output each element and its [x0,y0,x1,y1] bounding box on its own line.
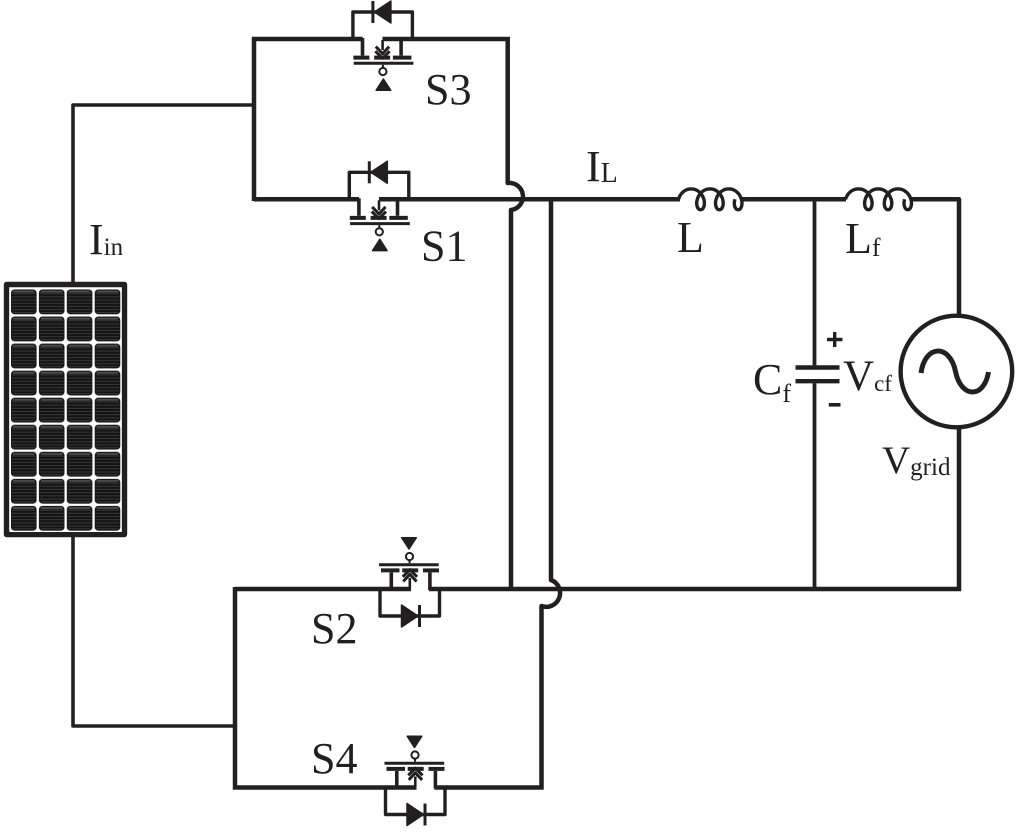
wire S2 rail right to bottom-right corner [429,587,961,592]
wire S1 rail left [254,197,359,202]
sine wave [921,351,989,392]
wire Cf branch upper [813,199,817,365]
svg-text:S3: S3 [425,65,471,114]
transistor S4 (rotated) [385,736,446,825]
svg-text:S1: S1 [421,222,467,271]
source Vgrid circle [901,316,1013,428]
svg-text:Iin: Iin [89,215,124,264]
wire S3 rail right [383,37,510,42]
wire Lf to top-right corner down to Vgrid [912,199,960,315]
svg-text:L: L [677,213,704,262]
svg-text:Vgrid: Vgrid [882,439,951,482]
svg-text:Cf: Cf [753,355,791,408]
svg-text:Lf: Lf [845,214,881,263]
transistor S3 [353,1,414,90]
wire S4 rail left [233,785,417,790]
wire S1 rail right to grid corner [379,197,680,202]
wire S4 rail right [435,785,544,790]
inductor Lf [846,189,912,210]
solar panel PV module [7,285,125,535]
wire line B from S1 rail down with hop over S2 rail [542,201,561,790]
wire Cf branch lower [813,383,817,589]
wire S3 rail left [252,37,363,42]
plus sign [827,332,843,347]
transistor S1 [349,161,410,250]
svg-text:IL: IL [586,142,618,191]
svg-text:Vcf: Vcf [843,353,892,400]
wire line A from S3 down with hop over S1 rail [508,37,523,589]
svg-text:S2: S2 [311,604,357,653]
wire left bottom bridge vertical [233,587,238,790]
wire left bridge vertical S3-S1 [252,37,257,201]
wire Vgrid bottom [957,428,962,592]
wire L to Cf node to Lf [742,197,846,202]
minus sign [829,403,841,407]
wire S2 rail left [235,587,411,592]
wire PV top to input node [73,105,254,282]
wire PV bottom to lower-left node [73,537,235,726]
svg-text:S4: S4 [311,734,357,783]
inductor L [679,189,743,210]
transistor S2 (rotated) [379,538,440,627]
capacitor Cf [796,368,840,382]
